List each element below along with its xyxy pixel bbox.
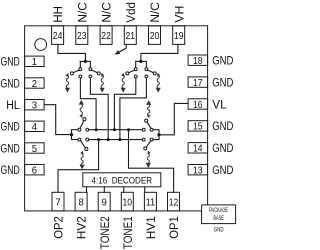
switch S2 pole contact <box>89 68 92 71</box>
actuator S1 squiggle <box>66 75 68 88</box>
wire S2 output to lower rail <box>90 78 108 140</box>
actuator S8 squiggle <box>147 154 149 166</box>
svg-text:N/C: N/C <box>100 2 114 23</box>
svg-text:1: 1 <box>32 56 37 68</box>
PACKAGE BASE note box <box>202 205 236 224</box>
svg-text:GND: GND <box>1 120 20 134</box>
svg-text:BASE: BASE <box>213 215 224 222</box>
svg-text:HH: HH <box>51 6 65 22</box>
svg-text:OP2: OP2 <box>52 216 66 239</box>
actuator S7 arrow big <box>146 100 151 105</box>
pin 17 box <box>188 77 208 87</box>
decoder U1 4:16 DECODER box <box>83 173 161 187</box>
svg-text:HL: HL <box>6 98 20 112</box>
pin 5 box <box>25 143 44 153</box>
switch S4 throw contact <box>145 75 148 78</box>
wire S3 output to upper rail <box>114 78 135 130</box>
switch S7 blade tip contact <box>145 119 148 122</box>
wire decoder to pin 10 <box>123 187 125 193</box>
switch S6 blade <box>81 141 86 148</box>
pin 2 box <box>25 78 44 88</box>
wire S1 stem <box>79 61 81 67</box>
svg-text:GND: GND <box>1 163 20 177</box>
IC package outline <box>25 26 208 211</box>
wire pin24 HH feed <box>58 44 86 61</box>
switch S5 pole contact <box>78 128 81 131</box>
svg-text:10: 10 <box>123 196 133 208</box>
switch S1 blade <box>73 70 79 73</box>
pin 11 box <box>144 192 156 211</box>
pin 12 box <box>168 192 180 211</box>
wire H bracket <box>72 130 78 140</box>
switch S6 throw contact <box>86 138 89 141</box>
switch S2 blade tip contact <box>97 72 100 75</box>
switch S8 blade <box>146 141 151 147</box>
svg-text:18: 18 <box>193 55 203 67</box>
node upper rail right junction <box>127 128 130 131</box>
wire S1 output to upper rail <box>80 78 96 130</box>
svg-text:5: 5 <box>32 143 37 155</box>
svg-text:GND: GND <box>212 141 233 155</box>
svg-text:GND: GND <box>212 119 233 133</box>
pin 16 box <box>188 99 208 109</box>
switch S4 pole contact <box>145 68 148 71</box>
wire S3 stem <box>135 61 137 67</box>
Vdd substrate arrow <box>117 44 126 53</box>
wire pin16 VL input <box>159 103 188 134</box>
switch S4 blade <box>148 70 154 73</box>
switch S5 blade <box>80 121 84 129</box>
switch S2 blade <box>92 70 98 73</box>
pin 3 box <box>25 100 44 110</box>
svg-text:GND: GND <box>212 75 233 89</box>
actuator S5 arrow small <box>79 114 82 118</box>
node HH apex junction <box>84 60 87 63</box>
switch S1 pole contact <box>79 68 82 71</box>
svg-text:13: 13 <box>193 165 203 177</box>
actuator S6 arrow big <box>80 165 85 170</box>
actuator S3 arrow small <box>121 73 124 77</box>
svg-text:21: 21 <box>126 30 136 42</box>
pin 6 box <box>25 165 44 175</box>
svg-text:GND: GND <box>212 54 233 68</box>
switch S2 throw contact <box>89 75 92 78</box>
svg-text:GND: GND <box>1 76 20 90</box>
switch S4 blade tip contact <box>153 72 156 75</box>
switch S8 pole contact <box>150 138 153 141</box>
svg-text:7: 7 <box>55 196 60 208</box>
svg-text:PACKAGE: PACKAGE <box>209 207 228 214</box>
switch S8 throw contact <box>142 138 145 141</box>
pin 21 box <box>124 26 136 45</box>
node upper rail left junction <box>95 128 98 131</box>
switch S7 blade <box>147 122 151 128</box>
actuator S6 arrow small <box>80 151 83 155</box>
switch S1 blade tip contact <box>70 72 73 75</box>
actuator S5 squiggle <box>80 104 82 115</box>
pin 7 box <box>52 192 64 211</box>
actuator S3 arrow big <box>121 88 126 93</box>
pin 1 box <box>25 56 44 66</box>
switch S1 throw contact <box>79 75 82 78</box>
svg-text:VL: VL <box>212 97 227 111</box>
wire decoder to pin 11 <box>144 187 146 193</box>
svg-text:GND: GND <box>1 141 20 155</box>
wire lower rail to pin7 OP2 <box>58 140 99 193</box>
svg-text:12: 12 <box>169 196 179 208</box>
pin 22 box <box>100 26 112 45</box>
pin 15 box <box>188 121 208 131</box>
pin 4 box <box>25 121 44 131</box>
wire upper rail to pin12 OP1 <box>129 130 174 193</box>
svg-text:15: 15 <box>193 121 203 133</box>
svg-text:2: 2 <box>32 78 37 90</box>
svg-text:16: 16 <box>193 99 203 111</box>
svg-text:Vdd: Vdd <box>124 2 138 23</box>
wire right tree bar <box>136 60 147 62</box>
actuator S2 squiggle <box>101 75 103 88</box>
switch S3 blade tip contact <box>126 72 129 75</box>
pin 20 box <box>149 26 161 45</box>
svg-text:OP1: OP1 <box>167 216 181 239</box>
svg-text:4: 4 <box>32 121 37 133</box>
svg-text:N/C: N/C <box>148 2 162 23</box>
svg-text:9: 9 <box>102 196 107 208</box>
svg-text:VH: VH <box>172 6 186 23</box>
wire upper rail <box>89 129 142 131</box>
pin 1 indicator circle <box>35 39 47 51</box>
actuator S7 squiggle <box>148 104 150 116</box>
svg-text:23: 23 <box>77 30 87 42</box>
switch S3 blade <box>129 70 135 73</box>
actuator S6 squiggle <box>81 154 83 166</box>
svg-text:19: 19 <box>174 30 184 42</box>
switch S7 pole contact <box>150 128 153 131</box>
svg-text:TONE2: TONE2 <box>98 216 112 249</box>
node lower rail right junction <box>118 138 121 141</box>
svg-text:20: 20 <box>150 30 160 42</box>
pin 23 box <box>76 26 88 45</box>
switch S6 pole contact <box>78 138 81 141</box>
actuator S4 arrow big <box>156 88 161 93</box>
svg-text:11: 11 <box>146 196 156 208</box>
svg-text:6: 6 <box>32 165 37 177</box>
pin 19 box <box>173 26 185 45</box>
actuator S2 arrow small <box>101 73 104 77</box>
node H junction <box>70 133 73 136</box>
pin 9 box <box>98 192 110 211</box>
actuator S4 arrow small <box>157 73 160 77</box>
switch S6 blade tip contact <box>85 148 88 151</box>
wire S4 stem <box>145 61 147 67</box>
wire pin19 VH feed <box>141 44 178 61</box>
svg-text:22: 22 <box>101 30 111 42</box>
actuator S4 squiggle <box>157 75 159 88</box>
svg-text:14: 14 <box>193 143 203 155</box>
wire decoder to pin 8 <box>86 187 88 193</box>
svg-text:3: 3 <box>32 100 37 112</box>
switch S3 pole contact <box>134 68 137 71</box>
switch S8 blade tip contact <box>144 147 147 150</box>
wire S4 output to lower rail <box>120 78 146 140</box>
svg-text:TONE1: TONE1 <box>121 216 135 249</box>
wire pin3 HL input <box>44 105 70 135</box>
svg-text:GND: GND <box>1 55 20 69</box>
svg-text:8: 8 <box>78 196 83 208</box>
pin 18 box <box>188 55 208 65</box>
actuator S1 arrow small <box>65 73 68 77</box>
svg-text:HV2: HV2 <box>75 216 89 239</box>
svg-text:GND: GND <box>214 227 224 234</box>
svg-text:N/C: N/C <box>75 2 89 23</box>
node lower rail mid junction <box>107 138 110 141</box>
svg-text:17: 17 <box>193 77 203 89</box>
actuator S5 arrow big <box>79 100 84 105</box>
pin 10 box <box>121 192 133 211</box>
actuator S7 arrow small <box>147 114 150 118</box>
wire decoder to pin 9 <box>103 187 105 193</box>
wire V bracket <box>153 130 159 140</box>
actuator S8 arrow small <box>148 150 151 154</box>
pin 14 box <box>188 143 208 153</box>
svg-text:24: 24 <box>53 30 63 42</box>
pin 13 box <box>188 165 208 175</box>
wire S2 stem <box>89 61 91 67</box>
node V junction <box>157 133 160 136</box>
switch S5 blade tip contact <box>83 118 86 121</box>
actuator S1 arrow big <box>65 88 70 93</box>
node lower rail left junction <box>97 138 100 141</box>
pin 24 box <box>52 26 64 45</box>
wire left tree bar <box>80 60 90 62</box>
switch S7 throw contact <box>142 128 145 131</box>
node VH apex junction <box>139 60 142 63</box>
switch S3 throw contact <box>134 75 137 78</box>
node upper rail mid junction <box>113 128 116 131</box>
svg-text:GND: GND <box>212 163 233 177</box>
wire lower rail <box>89 139 142 141</box>
switch S5 throw contact <box>86 128 89 131</box>
actuator S2 arrow big <box>100 88 105 93</box>
svg-text:4:16 DECODER: 4:16 DECODER <box>92 175 153 185</box>
actuator S3 squiggle <box>122 75 124 88</box>
pin 8 box <box>75 192 87 211</box>
svg-text:HV1: HV1 <box>144 216 158 239</box>
actuator S8 arrow big <box>146 163 151 168</box>
